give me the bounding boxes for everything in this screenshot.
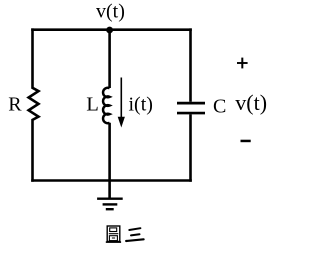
svg-text:R: R (8, 94, 22, 116)
svg-text:v(t): v(t) (235, 90, 267, 115)
svg-text:L: L (86, 94, 99, 116)
svg-text:C: C (213, 96, 226, 118)
svg-text:i(t): i(t) (129, 94, 153, 116)
svg-text:v(t): v(t) (96, 0, 125, 22)
